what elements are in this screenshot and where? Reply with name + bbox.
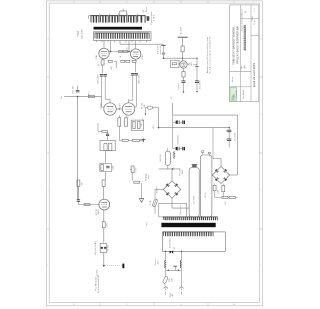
svg-text:Feuil de: Feuil de	[236, 90, 238, 98]
B+ rail wire	[173, 114, 238, 116]
anode RC network	[100, 163, 112, 171]
svg-text:6CA7: 6CA7	[95, 54, 98, 60]
svg-text:Date:: Date:	[251, 15, 254, 20]
coupling capacitor C6	[131, 73, 134, 75]
svg-text:47u 450V: 47u 450V	[234, 132, 236, 141]
grid resistor R17	[132, 60, 136, 62]
power tube V4 6CA7	[99, 48, 109, 58]
splitter cathode resistor R2	[102, 130, 107, 132]
feedback resistor box	[171, 60, 179, 67]
choke winding wiggle	[173, 152, 176, 159]
svg-text:TSM: TSM	[76, 31, 80, 36]
driver supply rail	[178, 36, 188, 38]
svg-text:6CA7: 6CA7	[141, 54, 144, 60]
power tube V5 6CA7	[131, 49, 141, 59]
svg-text:8ohm: 8ohm	[146, 7, 148, 12]
screen grid wires	[108, 51, 132, 53]
primary taps to tubes	[103, 41, 105, 49]
svg-text:reserv.: reserv.	[178, 83, 180, 89]
thermistor CTN	[213, 185, 216, 191]
HT takeoff fuse	[147, 106, 152, 109]
primary windings	[164, 232, 214, 236]
svg-text:CTN: CTN	[218, 189, 220, 194]
svg-text:Vin: Vin	[61, 96, 63, 99]
cathode bypass loop	[100, 243, 107, 252]
svg-text:S TE S: S TE S	[153, 14, 155, 21]
output transformer core	[94, 27, 143, 30]
svg-text:Ck 47u: Ck 47u	[108, 245, 110, 251]
phase splitter tube V2	[104, 103, 116, 115]
grid resistor R14	[108, 60, 112, 62]
grid coupling	[77, 199, 80, 201]
driver cathode resistor R22	[183, 68, 185, 71]
+HT supply bar	[161, 44, 165, 46]
X capacitor	[165, 268, 167, 270]
svg-text:B+ et B- mesure a vide du seco: B+ et B- mesure a vide du secondaire HT	[209, 36, 212, 74]
svg-text:Aerop:: Aerop:	[231, 76, 234, 82]
output transformer secondary taps	[99, 14, 101, 16]
svg-text:Lk 6H7: Lk 6H7	[101, 102, 103, 109]
anode wire	[105, 172, 107, 180]
wire to terminal	[103, 252, 105, 265]
svg-text:220n 400v: 220n 400v	[97, 74, 99, 83]
svg-text:TR1: TR1	[147, 222, 149, 226]
svg-text:Rk: Rk	[98, 64, 100, 66]
mains fuse F1	[165, 270, 167, 276]
svg-text:Page:: Page:	[254, 19, 256, 24]
heater resistors	[214, 191, 216, 198]
psu fuse F2	[154, 190, 156, 199]
grid leak resistor R7	[77, 180, 80, 186]
bypass cap CA	[101, 247, 103, 249]
secondary taps	[165, 217, 167, 220]
cathode resistor R13	[101, 60, 104, 65]
screen resistor R12	[124, 51, 128, 53]
wire couplings to splitter plates	[101, 81, 103, 97]
svg-text:1M: 1M	[82, 182, 84, 185]
coupling capacitor C4	[100, 74, 103, 76]
svg-text:Modifiable: Modifiable	[243, 89, 245, 99]
splitter tail resistor R5	[122, 139, 128, 141]
cathode resistor R9	[103, 210, 105, 222]
B+ feed down wire	[237, 115, 239, 175]
title block logo	[230, 87, 236, 101]
pot wire and trimmer	[132, 173, 134, 181]
svg-text:12AX7: 12AX7	[97, 208, 100, 215]
bias cell box	[100, 140, 115, 150]
bridge rectifier B1	[163, 181, 172, 190]
svg-text:240 mV (6CA7): 240 mV (6CA7)	[94, 241, 97, 255]
svg-text:47u 450V: 47u 450V	[193, 195, 195, 204]
bypass cap CB	[104, 247, 106, 249]
bridge rectifier B2	[212, 166, 221, 175]
primary bottom pin stubs	[96, 41, 98, 43]
psu right wire	[212, 128, 214, 159]
sheet frame inner border	[49, 3, 259, 303]
mains plug contacts	[164, 287, 167, 289]
rail capacitors C12 C13	[176, 147, 178, 151]
svg-text:type 4060: type 4060	[80, 28, 83, 38]
psu enclosure box	[159, 204, 187, 217]
splitter tail resistor R6	[132, 139, 139, 141]
cap can A	[189, 168, 199, 217]
grid entry wire	[101, 97, 103, 107]
svg-text:S1: S1	[174, 247, 176, 249]
filter choke right	[180, 260, 181, 268]
filter choke left	[165, 260, 166, 268]
svg-text:100K: 100K	[112, 165, 114, 170]
NFB wire	[158, 108, 160, 128]
svg-text:47u 450V: 47u 450V	[200, 80, 202, 89]
input wire	[64, 96, 101, 98]
psu node wire	[159, 168, 181, 170]
sheet frame outer border	[47, 1, 263, 306]
reservoir capacitor C9	[196, 58, 198, 81]
svg-text:450V: 450V	[182, 169, 184, 174]
svg-text:470: 470	[111, 66, 113, 69]
svg-text:##############: ##############	[243, 25, 247, 51]
mains fuse bowtie	[170, 250, 174, 253]
first stage tube V1	[99, 199, 110, 210]
power transformer core	[161, 223, 215, 227]
driver plate resistor R21	[181, 46, 184, 52]
cathode wires	[102, 59, 104, 60]
matched resistor box	[131, 120, 143, 130]
cathode cap C2	[107, 131, 109, 134]
frame zone ticks	[47, 76, 50, 78]
phase splitter tube V3	[122, 103, 134, 115]
ground symbol	[139, 199, 143, 203]
long input bus wire	[77, 97, 79, 200]
svg-text:jeudi 23 avril 2015: jeudi 23 avril 2015	[252, 62, 256, 88]
choke L1	[165, 151, 170, 165]
terminal bar	[122, 264, 124, 269]
bias wires	[102, 65, 104, 73]
grid resistor R1	[88, 96, 94, 98]
cap can B	[201, 155, 212, 217]
svg-text:B+ 410V: B+ 410V	[181, 26, 183, 34]
B+ center tap wire	[120, 43, 164, 45]
speaker HP connector	[145, 16, 148, 18]
output transformer primary windings	[95, 33, 150, 38]
wire to first stage	[105, 151, 107, 164]
coupling capacitor C5	[104, 74, 107, 76]
input capacitor C1	[77, 85, 79, 90]
output transformer primary box	[94, 32, 152, 41]
svg-text:1 / 1: 1 / 1	[254, 8, 256, 12]
mains wires from transformer	[165, 251, 167, 260]
tail ground bar	[142, 139, 144, 142]
svg-text:+6,3Volt: +6,3Volt	[96, 269, 99, 276]
reservoir capacitor C8	[182, 80, 186, 82]
+HT feed wire	[164, 57, 183, 59]
svg-text:Pont moule: Pont moule	[179, 205, 182, 215]
grid resistor R16	[126, 60, 130, 62]
power transformer primary box	[162, 232, 225, 251]
coupling capacitor C7	[135, 73, 138, 75]
driver ground stub	[193, 64, 197, 66]
svg-text:2x350V: 2x350V	[157, 186, 159, 193]
svg-text:bias: bias	[148, 175, 150, 179]
svg-text:PP 6CA7 BASS TB DRIVER 8W: PP 6CA7 BASS TB DRIVER 8W	[235, 26, 239, 64]
svg-text:Self 10H: Self 10H	[160, 154, 162, 162]
title block	[230, 5, 259, 102]
svg-text:1A6: 1A6	[171, 278, 174, 281]
svg-text:100n 400: 100n 400	[72, 85, 74, 94]
screen resistor R11	[119, 51, 123, 53]
svg-text:Lk 6H7: Lk 6H7	[120, 102, 122, 109]
svg-text:TSM 6CA7 BARSOTOWSKI: TSM 6CA7 BARSOTOWSKI	[232, 27, 236, 65]
svg-text:EZ 81: EZ 81	[205, 191, 207, 197]
svg-text:apres self: apres self	[160, 45, 162, 54]
svg-text:filtre: filtre	[157, 260, 160, 264]
plate resistor R8	[102, 180, 105, 186]
isolated rail mark	[142, 139, 146, 141]
presence pot	[131, 166, 134, 173]
driver tube V6	[180, 61, 187, 68]
svg-text:Attention sous 900 ohms entre: Attention sous 900 ohms entre les points	[206, 37, 209, 73]
power transformer secondary windings	[163, 217, 217, 220]
splitter plate resistor R3	[118, 118, 121, 126]
rail capacitors C10 C11	[176, 120, 178, 124]
output transformer secondary windings	[91, 16, 99, 23]
UL tap box	[120, 11, 127, 15]
grid resistor R15	[121, 60, 125, 62]
splitter plate resistor R4	[125, 118, 128, 126]
svg-text:100n/400V: 100n/400V	[178, 135, 180, 145]
svg-text:230V 50Hz: 230V 50Hz	[170, 238, 172, 248]
svg-text:220n 400v: 220n 400v	[138, 74, 140, 83]
filter caps C14 C15	[213, 127, 229, 129]
